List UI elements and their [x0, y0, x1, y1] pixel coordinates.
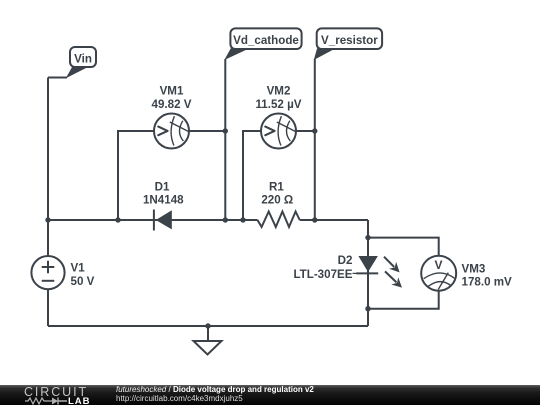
svg-text:220 Ω: 220 Ω [261, 194, 293, 207]
svg-text:V_resistor: V_resistor [321, 34, 378, 47]
svg-text:V: V [434, 258, 442, 272]
svg-text:1N4148: 1N4148 [143, 194, 184, 207]
svg-text:R1: R1 [269, 180, 284, 193]
svg-text:49.82 V: 49.82 V [152, 98, 192, 111]
svg-text:VM1: VM1 [160, 85, 184, 98]
svg-text:11.52 µV: 11.52 µV [255, 98, 301, 111]
svg-text:V1: V1 [71, 262, 86, 275]
svg-text:Vin: Vin [74, 52, 92, 65]
svg-text:VM3: VM3 [462, 262, 486, 275]
svg-text:50 V: 50 V [71, 275, 95, 288]
svg-text:VM2: VM2 [267, 85, 291, 98]
svg-text:LTL-307EE: LTL-307EE [293, 268, 352, 281]
svg-text:D2: D2 [338, 254, 353, 267]
svg-text:Vd_cathode: Vd_cathode [233, 34, 299, 47]
svg-text:D1: D1 [155, 180, 170, 193]
svg-text:178.0 mV: 178.0 mV [462, 276, 513, 289]
